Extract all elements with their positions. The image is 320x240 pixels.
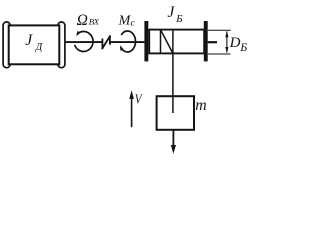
- label M_C: [118, 14, 136, 29]
- label J_Д: [25, 32, 43, 53]
- label Ω_вх: [77, 12, 100, 29]
- svg-text:J: J: [167, 4, 175, 21]
- rotation arrow M_C: [120, 31, 135, 52]
- svg-text:Б: Б: [239, 40, 247, 54]
- wire: shaft coupling to drum: [110, 41, 144, 43]
- svg-text:M: M: [118, 14, 132, 29]
- svg-text:Б: Б: [175, 13, 183, 25]
- rotation arrow Ω_вх: [75, 31, 93, 51]
- dimension extension lines D_Б: [208, 30, 231, 54]
- label D_Б: [229, 35, 248, 54]
- svg-text:V: V: [135, 92, 143, 107]
- backlash / elastic coupling symbol: [102, 36, 110, 48]
- drum body J_Б: [149, 30, 204, 54]
- mass m box: [157, 96, 194, 130]
- svg-text:с: с: [131, 18, 136, 29]
- motor right end cap: [58, 22, 65, 68]
- gravity arrow below mass: [171, 130, 176, 154]
- svg-text:J: J: [25, 32, 33, 49]
- motor left end cap: [3, 22, 10, 68]
- svg-text:ВХ: ВХ: [89, 17, 100, 27]
- label J_Б: [167, 4, 183, 25]
- wire: shaft motor to coupling: [65, 41, 102, 43]
- svg-text:m: m: [195, 97, 206, 114]
- drum left flange: [144, 21, 148, 61]
- dimension arrow D_Б: [225, 31, 228, 54]
- svg-text:Д: Д: [35, 42, 43, 53]
- motor body J_Д: [9, 25, 60, 64]
- svg-text:D: D: [229, 35, 241, 51]
- wire: rope from drum to load: [172, 30, 174, 113]
- shaft stub right of drum: [208, 41, 217, 43]
- drum right flange: [204, 21, 208, 61]
- svg-text:Ω: Ω: [77, 12, 88, 29]
- rope wound on drum (N figure): [161, 30, 173, 54]
- velocity arrow V: [129, 90, 134, 127]
